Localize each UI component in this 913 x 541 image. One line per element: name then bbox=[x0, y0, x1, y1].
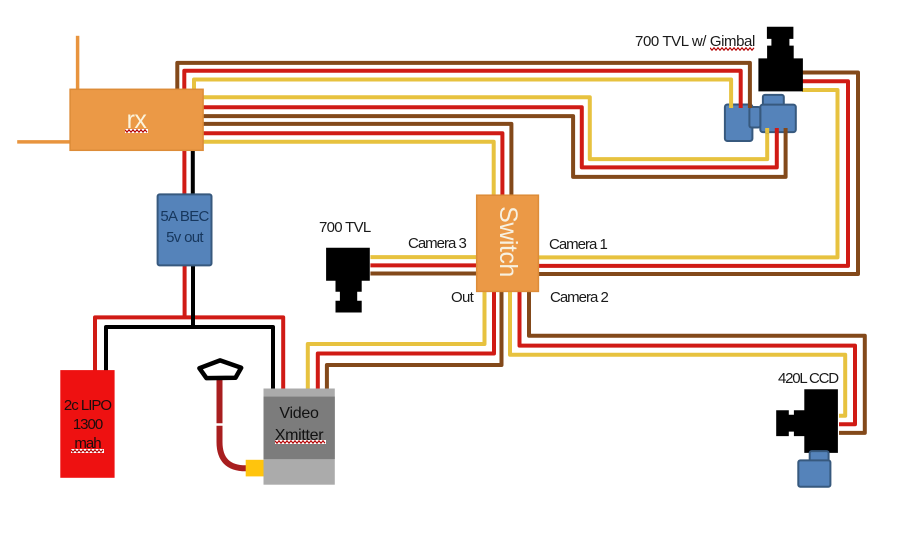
wire: yellow, switch bottom to video transmitter (Out) bbox=[308, 291, 485, 389]
label: 420L CCD bbox=[778, 370, 838, 387]
wire stub: red into gimbal servo top bbox=[739, 104, 743, 109]
wire stub: brown out of gimbal servo bottom bbox=[784, 128, 788, 133]
rx receiver box bbox=[70, 89, 203, 150]
wire stub: red out of gimbal servo bottom bbox=[775, 128, 779, 133]
wire: brown, rx right to gimbal bottom (jogged) bbox=[203, 116, 786, 177]
wire: yellow, rx right to gimbal bottom (jogged) bbox=[203, 97, 768, 159]
wire: red, rx top to gimbal servo bbox=[184, 71, 740, 106]
wire stub: yellow out of gimbal servo bottom bbox=[765, 128, 769, 133]
wire: orange antenna lead (vertical) on rx bbox=[76, 36, 80, 90]
wire: red, BEC output stub to power bus bbox=[183, 265, 187, 319]
wire: black, BEC output stub to power bus bbox=[191, 265, 195, 329]
camera: 420L CCD black body bbox=[776, 389, 838, 453]
wire: yellow, rx right to switch top bbox=[203, 142, 494, 197]
spellcheck squiggle under rx bbox=[125, 129, 148, 135]
wire: brown, switch bottom to 420L CCD (Camera 2) bbox=[529, 291, 865, 433]
wire: yellow, switch left to 700 TVL camera (Camera 3) bbox=[370, 255, 477, 259]
wire: brown, switch bottom to video transmitter (Out) bbox=[327, 291, 502, 389]
wire: yellow, rx top to gimbal servo bbox=[194, 80, 731, 107]
wire: red power bus, LIPO to video transmitter bbox=[95, 317, 283, 389]
wire: orange lead left of rx bbox=[17, 140, 70, 144]
gimbal servo: small blue connector between boxes bbox=[749, 107, 760, 128]
wire: black, rx bottom to BEC bbox=[191, 150, 195, 195]
wire: brown, switch left to 700 TVL camera (Camera 3) bbox=[370, 272, 477, 276]
connector: 420L CCD blue plug top tab bbox=[810, 451, 829, 462]
wire stub: yellow into gimbal servo top bbox=[729, 104, 733, 109]
wire: black power bus, LIPO to video transmitter bbox=[106, 327, 273, 389]
label: rx bbox=[70, 106, 203, 135]
label: Video Xmitter bbox=[263, 403, 335, 447]
video transmitter box (outer light gray) bbox=[264, 389, 335, 485]
wire stub: brown into gimbal servo top bbox=[748, 104, 752, 109]
label: 700 TVL bbox=[319, 219, 371, 236]
connector: yellow RP-SMA block at video transmitter bbox=[246, 460, 265, 477]
wire: red, switch bottom to video transmitter (Out) bbox=[318, 291, 494, 389]
gimbal servo: right blue box bbox=[760, 105, 796, 133]
wire: red, rx right to gimbal bottom (jogged) bbox=[203, 107, 777, 167]
camera: 700 TVL (Camera 3) black body bbox=[326, 248, 370, 313]
spellcheck squiggle under Gimbal bbox=[710, 47, 756, 53]
spellcheck squiggle under mah bbox=[71, 449, 104, 455]
wire: brown, rx right to switch top bbox=[203, 124, 512, 197]
connector: 420L CCD blue plug bbox=[798, 460, 830, 486]
wire: brown, rx top to gimbal servo (left blue box) bbox=[177, 63, 750, 106]
camera: 700 TVL w/ Gimbal black camera body bbox=[758, 27, 803, 92]
label: 2c LIPO 1300 mah bbox=[60, 396, 115, 453]
wire: brown, gimbal camera to switch right (Camera 1) bbox=[539, 73, 859, 275]
BEC box (5A BEC 5v out) bbox=[158, 194, 212, 265]
gimbal servo: left blue box bbox=[725, 105, 753, 142]
gimbal servo: top tab on right blue box bbox=[763, 95, 784, 106]
wire: red, rx bottom to BEC bbox=[182, 150, 186, 195]
label: Camera 1 bbox=[549, 236, 607, 253]
label: Out bbox=[451, 289, 473, 306]
spellcheck squiggle under Xmitter bbox=[275, 440, 326, 446]
antenna: pentagon top of video TX whip bbox=[199, 360, 241, 378]
label: Camera 3 bbox=[408, 235, 466, 252]
wire: red, switch bottom to 420L CCD (Camera 2) bbox=[520, 291, 856, 424]
label: 700 TVL w/ Gimbal bbox=[635, 33, 755, 50]
video transmitter box (dark gray body) bbox=[264, 397, 335, 460]
wire: red, rx right to switch top bbox=[203, 133, 503, 196]
label: 5A BEC 5v out bbox=[157, 207, 212, 248]
wire: red, gimbal camera to switch right (Camera 1) bbox=[539, 81, 849, 266]
switch box bbox=[477, 195, 539, 291]
label: Camera 2 bbox=[550, 289, 608, 306]
label: Switch (rotated) bbox=[476, 195, 538, 291]
wire: yellow, gimbal camera to switch right (Camera 1) bbox=[539, 90, 838, 257]
wire: yellow, switch bottom to 420L CCD (Camera 2) bbox=[510, 291, 845, 416]
wire: red, switch left to 700 TVL camera (Camera 3) bbox=[370, 263, 477, 267]
antenna: video TX whip (maroon) with highlight gap bbox=[220, 379, 248, 468]
battery: 2c LIPO 1300 mah box bbox=[60, 370, 114, 478]
